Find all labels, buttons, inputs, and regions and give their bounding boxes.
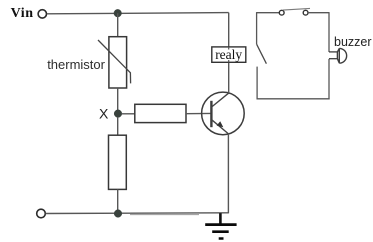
terminal Vin (top-left open circle) <box>38 10 46 18</box>
transistor Q1 emitter arrow <box>217 121 224 127</box>
transistor Q1 base bar <box>210 101 212 127</box>
resistor lower body (vertical) <box>109 135 127 189</box>
node X dot <box>114 110 122 118</box>
svg-text:Vin: Vin <box>11 6 34 21</box>
thermistor body <box>109 37 127 88</box>
wire relay drop (top rail corner down to relay) <box>228 13 230 48</box>
wire buzzer loop right lower <box>328 59 330 100</box>
wire thermistor top lead <box>117 13 119 37</box>
svg-text:buzzer: buzzer <box>334 35 372 49</box>
relay K1 box <box>212 47 246 62</box>
wire buzzer loop bottom <box>257 98 330 100</box>
wire top rail <box>47 13 229 14</box>
switch blade top <box>283 8 310 10</box>
wire lower resistor top lead <box>117 117 119 135</box>
svg-text:X: X <box>99 106 109 122</box>
wire emitter lead <box>227 134 229 214</box>
wire thermistor bottom lead <box>117 88 119 111</box>
wire lower resistor bottom lead <box>117 189 119 213</box>
wire buzzer loop top-left segment <box>257 12 280 14</box>
wire buzzer loop left upper <box>256 12 258 44</box>
node top junction <box>114 9 122 17</box>
switch contact right <box>303 10 308 15</box>
wire buzzer loop top-right segment <box>308 12 329 14</box>
transistor Q1 circle <box>202 92 245 135</box>
switch contact left <box>279 10 284 15</box>
transistor Q1 emitter diagonal <box>212 120 229 134</box>
relay label <box>215 50 242 61</box>
buzzer top lead <box>329 51 337 53</box>
wire X to base resistor <box>122 113 136 115</box>
wire buzzer loop left lower <box>256 67 258 100</box>
wire bottom rail <box>46 212 229 215</box>
svg-text:realy: realy <box>215 47 242 62</box>
svg-text:thermistor: thermistor <box>47 57 105 72</box>
buzzer bottom lead <box>329 58 337 60</box>
buzzer body (throat + dome) <box>337 48 346 63</box>
wire bottom rail echo stroke <box>130 214 199 216</box>
resistor base body (horizontal) <box>135 104 186 122</box>
wire through relay box <box>228 47 230 62</box>
wire buzzer loop right upper <box>328 12 330 52</box>
ground <box>205 213 236 238</box>
transistor Q1 collector diagonal <box>212 93 229 107</box>
node bottom junction <box>114 210 122 218</box>
wire base lead <box>186 112 212 114</box>
terminal bottom-left open circle <box>37 209 46 218</box>
wire collector lead <box>228 62 230 92</box>
thermistor diagonal mark <box>98 40 131 83</box>
switch blade left <box>257 44 267 64</box>
